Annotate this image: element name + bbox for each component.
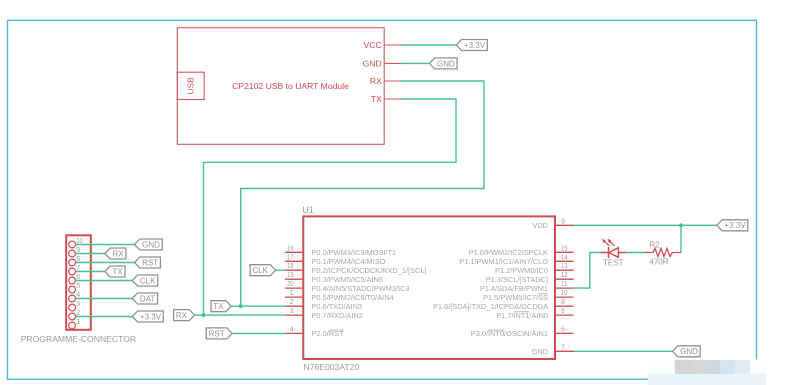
svg-text:8: 8 [561,299,565,306]
svg-text:7: 7 [561,344,565,351]
svg-text:P0.4/AIN5/STADC/PWM3/IC3: P0.4/AIN5/STADC/PWM3/IC3 [312,284,410,293]
svg-text:CP2102 USB to UART Module: CP2102 USB to UART Module [232,81,349,91]
svg-text:TX: TX [112,267,123,276]
svg-text:USB: USB [186,77,196,95]
svg-text:1: 1 [76,319,80,326]
svg-text:20: 20 [287,281,294,288]
svg-text:RX: RX [370,76,382,86]
svg-text:14: 14 [561,254,568,261]
svg-text:P0.3/PWM5/IC5/AIN6: P0.3/PWM5/IC5/AIN6 [312,275,383,284]
svg-text:P3.0/INT0/OSCIN/AIN1: P3.0/INT0/OSCIN/AIN1 [471,329,548,338]
svg-text:N76E003AT20: N76E003AT20 [304,362,360,372]
svg-text:470R: 470R [649,257,668,266]
svg-text:P1.6/[SDA]/TXD_1/ICPDA/OCDDA: P1.6/[SDA]/TXD_1/ICPDA/OCDDA [433,302,548,311]
svg-text:+3.3V: +3.3V [464,41,486,50]
svg-text:17: 17 [287,254,294,261]
svg-text:TEST: TEST [603,258,624,267]
svg-text:19: 19 [287,272,294,279]
svg-text:VCC: VCC [364,40,382,50]
svg-text:P0.5/PWM2/IC6/T0/AIN4: P0.5/PWM2/IC6/T0/AIN4 [312,293,394,302]
svg-text:10: 10 [561,290,568,297]
svg-text:TX: TX [213,302,224,311]
svg-text:P1.0/PWM2/IC2/SPCLK: P1.0/PWM2/IC2/SPCLK [469,248,548,257]
svg-text:P0.2/ICPCK/OCDCK/RXD_1/[SCL]: P0.2/ICPCK/OCDCK/RXD_1/[SCL] [312,266,427,275]
svg-text:P1.5/PWM5/IC7/SS: P1.5/PWM5/IC7/SS [483,293,548,302]
svg-text:P0.1/PWM4/IC4/MISO: P0.1/PWM4/IC4/MISO [312,257,386,266]
svg-text:CLK: CLK [252,266,268,275]
svg-text:+3.3V: +3.3V [140,312,162,321]
svg-text:16: 16 [287,245,294,252]
svg-text:11: 11 [561,281,568,288]
svg-text:18: 18 [287,263,294,270]
svg-text:DAT: DAT [140,294,156,303]
svg-text:3: 3 [76,301,80,308]
svg-text:5: 5 [561,326,565,333]
svg-text:R2: R2 [649,241,660,250]
svg-text:P0.6/TXD/AIN3: P0.6/TXD/AIN3 [312,302,363,311]
svg-text:U1: U1 [302,205,314,215]
svg-text:P0.0/PWM3/IC3/MOSI/T1: P0.0/PWM3/IC3/MOSI/T1 [312,248,397,257]
svg-text:RST: RST [209,329,225,338]
svg-text:9: 9 [561,218,565,225]
svg-text:15: 15 [561,245,568,252]
svg-text:TX: TX [371,94,382,104]
svg-text:P0.7/RXD/AIN2: P0.7/RXD/AIN2 [312,311,363,320]
svg-text:VDD: VDD [532,221,548,230]
svg-text:PROGRAMME-CONNECTOR: PROGRAMME-CONNECTOR [21,334,136,344]
svg-text:RST: RST [142,258,158,267]
svg-text:P1.7/INT1/AIN0: P1.7/INT1/AIN0 [496,311,548,320]
svg-text:P1.4/SDA/FB/PWM1: P1.4/SDA/FB/PWM1 [480,284,548,293]
svg-text:GND: GND [142,240,160,249]
svg-text:CLK: CLK [140,276,156,285]
svg-text:4: 4 [290,326,294,333]
svg-text:6: 6 [561,308,565,315]
svg-text:P1.2/PWM0/IC0: P1.2/PWM0/IC0 [495,266,548,275]
svg-text:12: 12 [561,272,568,279]
svg-text:P1.1/PWM1/IC1/AIN7/CLO: P1.1/PWM1/IC1/AIN7/CLO [459,257,548,266]
svg-text:2: 2 [290,299,294,306]
svg-text:GND: GND [532,347,548,356]
svg-text:RX: RX [176,311,188,320]
svg-text:3: 3 [290,308,294,315]
svg-text:GND: GND [680,347,698,356]
svg-text:5: 5 [76,283,80,290]
svg-text:13: 13 [561,263,568,270]
svg-text:1: 1 [290,290,294,297]
svg-text:P2.0/RST: P2.0/RST [312,329,345,338]
svg-text:GND: GND [363,59,382,69]
svg-text:+3.3V: +3.3V [724,221,746,230]
svg-text:RX: RX [113,249,125,258]
svg-text:GND: GND [437,59,455,68]
svg-text:P1.3/SCL/[STADC]: P1.3/SCL/[STADC] [486,275,548,284]
